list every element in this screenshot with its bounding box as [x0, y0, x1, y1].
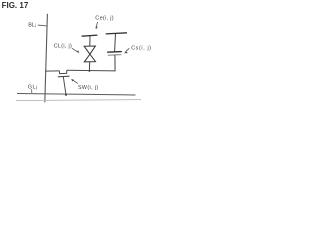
arrow SW leader [73, 80, 78, 83]
capacitor Cs(i,j) top stub [114, 34, 117, 52]
svg-text:GLj: GLj [28, 84, 38, 90]
capacitor Cs(i,j) top plate [107, 51, 122, 54]
wire gate line GL horizontal [17, 94, 136, 96]
node pixel wire junction [89, 70, 91, 72]
capacitor Cs(i,j) bottom stub [114, 55, 116, 71]
transistor SW(i,j) source wire [45, 70, 59, 72]
svg-text:BLi: BLi [28, 22, 36, 28]
wire second row line [16, 100, 141, 101]
arrow CL leader [72, 48, 78, 52]
capacitor Cs(i,j) bottom plate [108, 54, 122, 57]
node gate-GL junction [65, 94, 67, 96]
transistor SW(i,j) gate lead [63, 77, 66, 95]
arrow Ce leader [96, 22, 97, 27]
arrow Cs leader [126, 48, 130, 51]
liquid crystal CL(i,j) bottom stub [88, 62, 90, 72]
wire GL leader tick [31, 89, 33, 93]
counter electrode bar left [82, 35, 98, 36]
svg-text:FIG. 17: FIG. 17 [2, 1, 29, 10]
wire BL leader dash [38, 24, 47, 27]
svg-text:Ce(i, j): Ce(i, j) [95, 15, 114, 21]
liquid crystal CL(i,j) hourglass [84, 46, 95, 62]
wire bit line BL vertical [45, 14, 48, 103]
counter electrode bar right [106, 33, 127, 34]
liquid crystal CL(i,j) top stub [89, 36, 91, 47]
transistor SW(i,j) channel [59, 72, 67, 74]
svg-text:CL(i, j): CL(i, j) [54, 44, 72, 50]
svg-text:Cs(i, j): Cs(i, j) [131, 45, 152, 51]
svg-text:SW(i, j): SW(i, j) [78, 85, 99, 91]
transistor SW(i,j) drain rise [66, 70, 68, 74]
wire drain to pixel node [67, 69, 115, 72]
transistor SW(i,j) gate bar [58, 75, 70, 78]
transistor SW(i,j) source drop [58, 71, 60, 74]
